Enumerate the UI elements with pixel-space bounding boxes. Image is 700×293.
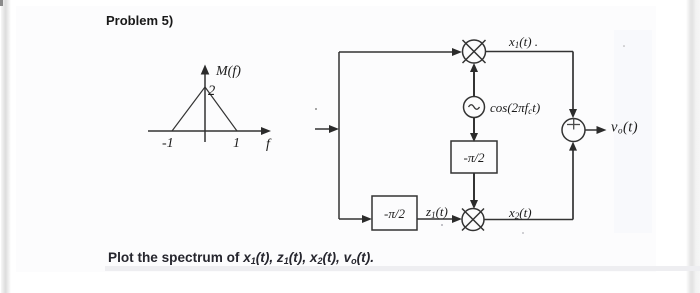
M(f) triangle spectrum [172,87,237,131]
svg-text:-π/2: -π/2 [464,150,485,165]
wire oscillator down to phase shifter [470,118,478,142]
wire phase shifter down to M2 [470,173,478,209]
phase shifter block (middle) [451,141,497,173]
svg-text:vo(t): vo(t) [611,120,638,136]
wire corner up to summer [569,142,577,220]
wire to multiplier M1 [339,48,462,56]
branch wire vertical [338,52,340,219]
summer [562,119,585,142]
svg-text:1: 1 [233,136,240,151]
wire M2 to corner [484,219,573,221]
scan speck [623,45,625,47]
input wire arrow [315,125,339,133]
wire M1 to corner [486,51,574,53]
left page-edge shadow [1,0,11,293]
caption text [108,250,374,265]
output wire arrow [585,126,607,134]
M(f) plot x-axis [148,127,271,135]
svg-text:x1(t) .: x1(t) . [508,34,538,50]
phase shifter block (bottom) [372,196,417,230]
right page shadow [614,30,652,233]
svg-text:2: 2 [208,83,215,99]
M(f) plot y-axis [201,65,210,143]
svg-text:z1(t): z1(t) [425,204,448,220]
multiplier M2 [462,209,484,231]
svg-text:x2(t): x2(t) [508,205,532,221]
svg-text:-π/2: -π/2 [384,206,405,221]
wire oscillator up to M1 [470,63,478,96]
scan speck [441,224,443,226]
bottom wire to phase shifter [339,215,372,223]
right scrollbar strip [686,0,700,293]
multiplier M1 [463,40,486,63]
svg-text:M(f): M(f) [215,64,241,79]
oscillator [464,97,485,118]
svg-text:-1: -1 [162,136,174,151]
wire corner down to summer [569,52,577,119]
scan speck [315,108,317,110]
bottom smear [105,266,700,271]
heading [106,13,173,28]
wire phase shifter to M2 [417,215,462,223]
svg-text:cos(2πfct): cos(2πfct) [490,100,540,116]
scan speck [522,232,524,234]
top-left corner mark [0,0,3,6]
svg-text:f: f [266,137,272,152]
